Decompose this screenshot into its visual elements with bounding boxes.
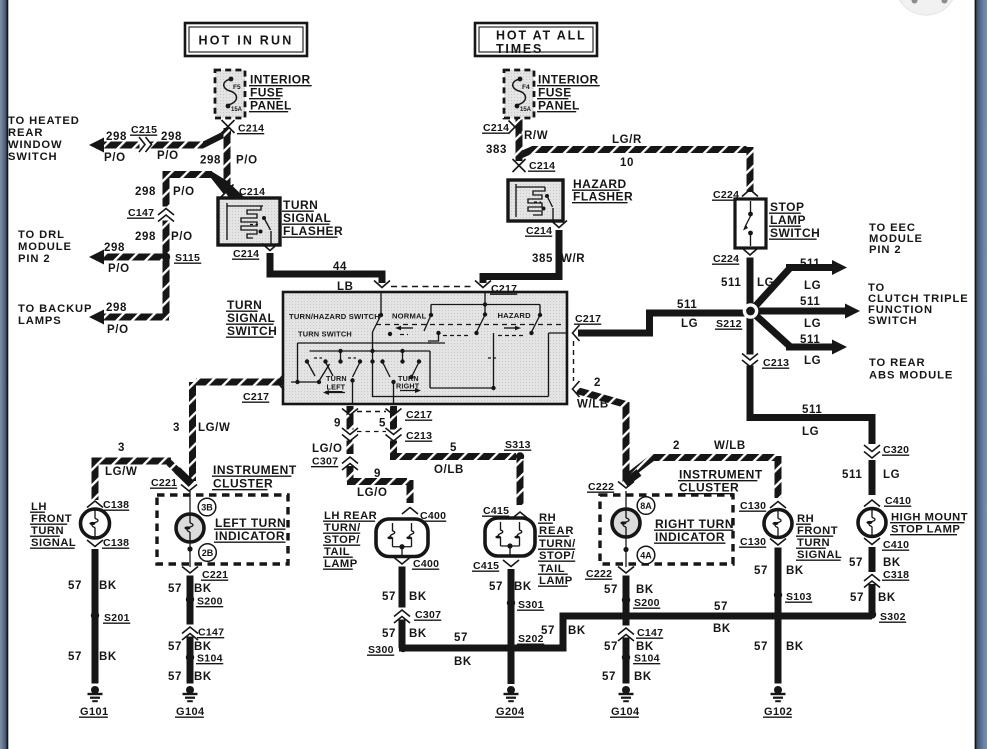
svg-text:SWITCH: SWITCH (770, 226, 820, 240)
svg-text:RH: RH (797, 513, 814, 525)
svg-text:STOP LAMP: STOP LAMP (891, 524, 960, 536)
svg-text:P/O: P/O (236, 155, 258, 167)
instrument cluster box right (600, 495, 733, 564)
svg-text:LG: LG (804, 280, 821, 292)
svg-text:FUSE: FUSE (250, 86, 284, 100)
turn signal switch SW1 box (283, 292, 567, 404)
ground G104 right (610, 686, 640, 718)
svg-text:C130: C130 (740, 536, 766, 548)
wire labels 3 LG/W vertical (173, 422, 230, 434)
turn signal switch internals (289, 293, 566, 403)
svg-text:BK: BK (634, 671, 652, 683)
right turn indicator lamp (612, 509, 640, 537)
svg-text:INSTRUMENT: INSTRUMENT (679, 468, 763, 482)
hazard flasher U2 (508, 180, 563, 221)
bulb id 8A (637, 497, 655, 515)
right turn indicator label (654, 517, 734, 544)
wire 383 R/W fuse drop (516, 119, 523, 161)
svg-text:LAMP: LAMP (324, 558, 358, 570)
connector C138 top (87, 499, 129, 511)
svg-text:C214: C214 (238, 123, 264, 135)
svg-text:P/O: P/O (108, 263, 130, 275)
svg-text:S104: S104 (634, 653, 660, 665)
svg-text:57: 57 (602, 671, 616, 683)
svg-text:S301: S301 (518, 599, 544, 611)
svg-text:298: 298 (135, 231, 156, 243)
splice S104 left (186, 653, 223, 665)
svg-text:LAMPS: LAMPS (18, 315, 62, 327)
interior fuse panel F5 (left) (215, 70, 245, 118)
svg-text:BK: BK (194, 641, 212, 653)
svg-text:TO HEATED: TO HEATED (8, 115, 80, 127)
svg-text:298: 298 (106, 302, 127, 314)
wire labels 3 LG/W horizontal (105, 442, 137, 478)
left turn indicator lamp (176, 514, 204, 542)
wire 57 BK ground bus (399, 616, 872, 648)
LH rear turn/stop/tail lamp (376, 519, 428, 557)
svg-text:15A: 15A (231, 107, 243, 113)
svg-text:15A: 15A (520, 107, 532, 113)
svg-text:TURN SWITCH: TURN SWITCH (298, 330, 352, 339)
connector C415 top (482, 505, 528, 519)
svg-text:C410: C410 (885, 495, 911, 507)
splice S202 (507, 633, 544, 652)
svg-text:C138: C138 (103, 537, 129, 549)
svg-text:C217: C217 (575, 313, 601, 325)
svg-text:LG/W: LG/W (105, 466, 137, 478)
svg-text:TURN: TURN (283, 198, 318, 212)
interior fuse panel label (left) (249, 73, 312, 113)
svg-text:57: 57 (714, 601, 728, 613)
wire labels 57 BK RH front lower (754, 641, 804, 653)
svg-text:C400: C400 (413, 558, 439, 570)
connector C415 bottom (472, 560, 519, 572)
svg-text:511: 511 (842, 469, 862, 481)
svg-text:BK: BK (883, 557, 901, 569)
wire labels 57 BK bus mid (541, 625, 586, 637)
svg-text:TURN/: TURN/ (324, 522, 361, 534)
svg-text:57: 57 (489, 581, 503, 593)
svg-text:C213: C213 (406, 430, 432, 442)
svg-text:44: 44 (333, 261, 347, 273)
wire 298 P/O to backup lamps (89, 310, 169, 325)
wire labels 57 BK rcluster2 (604, 641, 654, 653)
svg-text:C320: C320 (883, 444, 909, 456)
connector C138 bottom (87, 537, 129, 549)
splice S212 (743, 303, 759, 319)
svg-text:PANEL: PANEL (538, 99, 580, 113)
svg-text:R/W: R/W (524, 130, 548, 142)
connector C214 fuse2 output (482, 121, 522, 135)
splice S200 right (622, 596, 660, 609)
left cluster internal wire (187, 491, 192, 567)
svg-text:298: 298 (200, 155, 221, 167)
RH rear turn/stop/tail lamp (485, 518, 535, 556)
label TO DRL MODULE PIN 2 (18, 229, 72, 265)
wire labels 298 P/O branch2 (135, 186, 195, 198)
svg-text:FLASHER: FLASHER (573, 190, 633, 204)
svg-text:C147: C147 (637, 627, 663, 639)
svg-text:511: 511 (802, 404, 822, 416)
ground G104 left (175, 686, 205, 718)
HOT AT ALL TIMES box (475, 23, 597, 56)
svg-text:3: 3 (173, 422, 180, 434)
svg-text:SWITCH: SWITCH (8, 151, 58, 163)
svg-text:S202: S202 (518, 633, 544, 645)
svg-text:LH: LH (31, 501, 47, 513)
high mount stop lamp (858, 509, 886, 537)
svg-text:TAIL: TAIL (539, 563, 565, 575)
svg-text:LH REAR: LH REAR (324, 510, 377, 522)
wire 57 BK LH rear (399, 567, 406, 649)
svg-text:P/O: P/O (173, 186, 195, 198)
svg-text:F4: F4 (522, 84, 530, 91)
svg-text:SIGNAL: SIGNAL (283, 211, 331, 225)
wire 3 LG/W branch to LH front (95, 458, 191, 501)
wire 3 LG/W (193, 382, 285, 481)
svg-text:S200: S200 (634, 597, 660, 609)
svg-text:TO DRL: TO DRL (18, 229, 65, 241)
svg-text:57: 57 (68, 580, 82, 592)
svg-text:STOP/: STOP/ (324, 534, 360, 546)
splice S212 label (715, 318, 742, 330)
RH front turn signal lamp (764, 510, 792, 538)
connector C217 right top (573, 313, 602, 341)
label TO HEATED REAR WINDOW SWITCH (8, 115, 80, 163)
wire labels 298 P/O DRL (104, 242, 130, 275)
svg-text:C147: C147 (128, 207, 154, 219)
svg-text:57: 57 (168, 583, 182, 595)
connector C214 fuse output (222, 120, 265, 135)
svg-text:57: 57 (850, 592, 864, 604)
wire 2 W/LB to RH front (626, 456, 778, 498)
wire 5 O/LB to RH rear lamp (517, 459, 524, 505)
svg-text:57: 57 (382, 591, 396, 603)
connector C214 hazard feed (513, 159, 556, 172)
svg-text:511: 511 (800, 334, 820, 346)
svg-text:S115: S115 (175, 252, 200, 264)
wire 57 BK RH rear (508, 569, 515, 684)
turn signal switch label (226, 298, 277, 338)
svg-text:W/LB: W/LB (577, 399, 609, 411)
svg-text:9: 9 (374, 468, 381, 480)
svg-text:RH: RH (539, 512, 556, 524)
left blue sidebar (0, 0, 8, 749)
svg-text:C214: C214 (483, 122, 509, 134)
svg-text:G102: G102 (764, 706, 793, 718)
splice S103 (774, 591, 812, 603)
wire labels 57 BK LH rear lower (382, 628, 427, 640)
svg-text:57: 57 (754, 565, 768, 577)
svg-text:LG/R: LG/R (612, 134, 642, 146)
wire labels 385 W/R (532, 253, 585, 265)
connector C400 bottom (394, 558, 439, 571)
wire 511 LG from turn signal switch (578, 313, 751, 333)
connector C217 top pair (374, 281, 517, 296)
svg-text:P/O: P/O (104, 152, 126, 164)
connector C221 bottom (182, 567, 228, 582)
svg-text:C130: C130 (740, 500, 766, 512)
wire 511 LG to clutch switch (751, 304, 860, 319)
svg-text:S103: S103 (786, 591, 812, 603)
wire labels 57 BK RH rear (489, 581, 532, 593)
svg-text:TURN: TURN (797, 537, 830, 549)
wire labels 511 LG above S212 (721, 277, 774, 289)
svg-text:LAMP: LAMP (539, 575, 573, 587)
wire labels 511 LG high mount (842, 469, 900, 481)
connector C307 rear (394, 608, 441, 624)
svg-text:INTERIOR: INTERIOR (538, 73, 599, 87)
svg-text:INDICATOR: INDICATOR (655, 530, 725, 544)
wire labels 511 LG clutch (800, 296, 821, 330)
wire 57 BK right cluster (623, 576, 630, 684)
svg-text:SIGNAL: SIGNAL (797, 549, 842, 561)
connector C222 bottom (585, 567, 634, 581)
instrument cluster label left (212, 463, 297, 491)
svg-text:BK: BK (786, 641, 804, 653)
svg-text:P/O: P/O (157, 150, 179, 162)
svg-text:PANEL: PANEL (250, 99, 292, 113)
label TO CLUTCH TRIPLE FUNCTION SWITCH (868, 282, 969, 327)
svg-text:LG/O: LG/O (357, 487, 388, 499)
svg-text:57: 57 (168, 671, 182, 683)
svg-text:57: 57 (754, 641, 768, 653)
connector C217 left of switch (242, 374, 284, 403)
svg-text:298: 298 (135, 186, 156, 198)
wire 298 P/O to DRL module (89, 250, 166, 265)
RH front turn signal label (796, 513, 842, 561)
wire labels 57 BK high mount upper (849, 557, 901, 569)
svg-text:PIN 2: PIN 2 (869, 244, 901, 256)
HOT IN RUN box (185, 23, 307, 56)
wire LG/R 10 (516, 147, 750, 192)
svg-text:O/LB: O/LB (434, 464, 464, 476)
svg-text:G104: G104 (176, 706, 205, 718)
wire labels 57 BK bus right (713, 601, 731, 635)
svg-text:C217: C217 (243, 391, 269, 403)
ground G102 (763, 686, 793, 718)
svg-text:298: 298 (104, 242, 125, 254)
right blue sidebar (975, 0, 987, 749)
svg-text:3: 3 (118, 442, 125, 454)
svg-text:LG/O: LG/O (312, 443, 343, 455)
svg-text:2: 2 (673, 440, 680, 452)
svg-text:BK: BK (99, 580, 117, 592)
wire 9 LG/O (347, 406, 410, 503)
wire labels 511 LG to C320 (802, 404, 822, 438)
svg-text:C221: C221 (151, 477, 177, 489)
wire 57 BK high mount (869, 547, 876, 612)
svg-text:C224: C224 (713, 253, 739, 265)
svg-text:BK: BK (194, 583, 212, 595)
svg-text:C415: C415 (483, 505, 509, 517)
wire 57 BK LH front (92, 549, 99, 684)
connector C130 top (739, 500, 786, 512)
svg-text:W/R: W/R (561, 253, 585, 265)
svg-text:LG: LG (804, 355, 821, 367)
svg-text:5: 5 (450, 442, 457, 454)
svg-text:TO BACKUP: TO BACKUP (18, 303, 92, 315)
svg-text:298: 298 (106, 131, 127, 143)
svg-text:C215: C215 (131, 124, 157, 136)
svg-text:BK: BK (636, 584, 654, 596)
svg-text:REAR: REAR (8, 127, 43, 139)
svg-text:LG: LG (802, 426, 819, 438)
label TO EEC MODULE PIN 2 (869, 222, 923, 256)
svg-text:C214: C214 (526, 225, 552, 237)
svg-text:C222: C222 (588, 481, 614, 493)
svg-text:TURN/: TURN/ (539, 538, 576, 550)
wire labels 57 BK cluster3 (168, 671, 212, 683)
splice S313 (504, 439, 531, 461)
svg-text:BK: BK (454, 656, 472, 668)
svg-text:C410: C410 (883, 539, 909, 551)
stop lamp switch SW2 (735, 199, 766, 248)
splice S201 (91, 611, 130, 624)
wire labels 57 BK rcluster3 (602, 671, 652, 683)
bulb id 3B (198, 498, 216, 516)
svg-text:RIGHT TURN: RIGHT TURN (655, 517, 734, 531)
svg-text:LEFT TURN: LEFT TURN (215, 516, 286, 530)
RH rear lamp label (538, 512, 576, 587)
connector C214 hazard bottom (525, 221, 567, 238)
wire labels 5 O/LB (434, 442, 464, 476)
connector C215 inline (130, 124, 157, 152)
wire labels 298 P/O below C147 (135, 231, 193, 243)
svg-text:BK: BK (409, 628, 427, 640)
svg-text:10: 10 (620, 157, 634, 169)
wire labels 2 W/LB right (673, 440, 746, 452)
turn signal flasher U1 (218, 198, 280, 245)
svg-text:511: 511 (677, 299, 697, 311)
svg-text:S201: S201 (104, 612, 130, 624)
splice S302 (868, 610, 906, 623)
svg-text:FRONT: FRONT (31, 513, 72, 525)
wire 385 W/R (483, 230, 559, 283)
svg-text:C213: C213 (763, 357, 789, 369)
svg-text:C307: C307 (415, 609, 441, 621)
right cluster internal wire (623, 491, 628, 567)
svg-text:57: 57 (454, 632, 468, 644)
svg-text:HOT IN RUN: HOT IN RUN (199, 34, 294, 48)
svg-text:C415: C415 (473, 560, 499, 572)
wire labels 9 LG/O lower (357, 468, 388, 499)
connector C147 inline 298 (127, 207, 174, 222)
svg-text:385: 385 (532, 253, 553, 265)
svg-text:C214: C214 (529, 160, 555, 172)
wire labels 57 BK high mount lower (850, 592, 896, 604)
left turn indicator label (214, 516, 286, 543)
svg-text:9: 9 (334, 418, 341, 430)
svg-text:C307: C307 (312, 456, 338, 468)
svg-text:WINDOW: WINDOW (8, 139, 63, 151)
instrument cluster label right (678, 468, 763, 495)
svg-text:57: 57 (382, 628, 396, 640)
wire labels 57 BK LH rear upper (382, 591, 427, 603)
wire labels 298 P/O backup (106, 302, 129, 336)
connector C222 top (587, 473, 639, 494)
svg-text:57: 57 (168, 641, 182, 653)
wire 511 LG stoplamp to S212 (747, 258, 754, 312)
hazard flasher label (572, 177, 633, 204)
connector C221 top (150, 470, 197, 491)
svg-text:STOP/: STOP/ (539, 550, 575, 562)
wire labels LG/R 10 (612, 134, 642, 169)
svg-text:TURN/HAZARD SWITCH: TURN/HAZARD SWITCH (289, 312, 380, 321)
svg-text:F5: F5 (233, 84, 241, 91)
svg-text:INSTRUMENT: INSTRUMENT (213, 463, 297, 477)
svg-text:BK: BK (636, 641, 654, 653)
svg-text:INTERIOR: INTERIOR (250, 73, 311, 87)
wire labels 57 BK cluster2 (168, 641, 212, 653)
wire 511 LG to EEC module (751, 260, 847, 311)
connector C130 bottom (739, 536, 786, 548)
svg-text:BK: BK (878, 592, 896, 604)
connector C400 top (402, 508, 446, 523)
interior fuse panel F4 (right) (504, 70, 534, 118)
svg-text:383: 383 (486, 144, 507, 156)
connector C213 inline (742, 354, 789, 370)
wire labels 57 BK LH front lower (68, 651, 117, 663)
svg-text:SWITCH: SWITCH (868, 315, 918, 327)
svg-text:S313: S313 (505, 439, 531, 451)
svg-text:G104: G104 (611, 706, 640, 718)
wire 511 LG to high mount (869, 460, 876, 495)
svg-text:LG: LG (883, 469, 900, 481)
wire labels 57 BK bus left (454, 632, 472, 668)
svg-text:C222: C222 (586, 568, 612, 580)
svg-text:5: 5 (379, 418, 386, 430)
svg-text:TAIL: TAIL (324, 546, 350, 558)
svg-text:BK: BK (568, 625, 586, 637)
svg-text:2B: 2B (202, 548, 214, 558)
wire 298 P/O fuse drop (224, 128, 231, 190)
wire labels 511 LG left (677, 299, 698, 330)
svg-text:CLUSTER: CLUSTER (213, 477, 273, 491)
wire labels 57 BK rcluster1 (604, 584, 654, 596)
connector C214 flasher bottom (232, 244, 278, 261)
wire labels 57 BK cluster1 (168, 583, 212, 595)
wire labels 298 P/O row1 (104, 131, 182, 164)
pin labels 9 and 5 (334, 418, 386, 430)
wire 57 BK RH front (775, 548, 782, 684)
svg-text:S300: S300 (368, 644, 394, 656)
svg-text:FRONT: FRONT (797, 525, 838, 537)
wire labels 511 LG ABS (800, 334, 821, 367)
splice S200 left (186, 595, 223, 607)
connector C410 bottom (864, 538, 909, 551)
wire 2 W/LB to cluster (577, 391, 626, 484)
svg-text:511: 511 (800, 296, 820, 308)
wire 298 P/O to heated rear window switch (89, 128, 231, 153)
wire labels 383 R/W (486, 130, 548, 156)
svg-text:W/LB: W/LB (714, 440, 746, 452)
connector C320 inline (864, 444, 909, 458)
svg-text:SIGNAL: SIGNAL (31, 537, 76, 549)
wire labels 57 BK RH front upper (754, 565, 804, 577)
splice S115 (162, 252, 201, 264)
connector C217 right bottom (573, 341, 580, 397)
svg-text:57: 57 (68, 651, 82, 663)
connector C147 right cluster (618, 626, 663, 642)
connector C318 inline (864, 569, 909, 588)
bulb id 2B (199, 544, 217, 562)
svg-text:TURN: TURN (227, 298, 262, 312)
wire 298 P/O second branch (163, 171, 231, 317)
svg-text:STOP: STOP (770, 200, 804, 214)
svg-text:NORMAL: NORMAL (392, 312, 427, 321)
svg-text:511: 511 (721, 277, 741, 289)
